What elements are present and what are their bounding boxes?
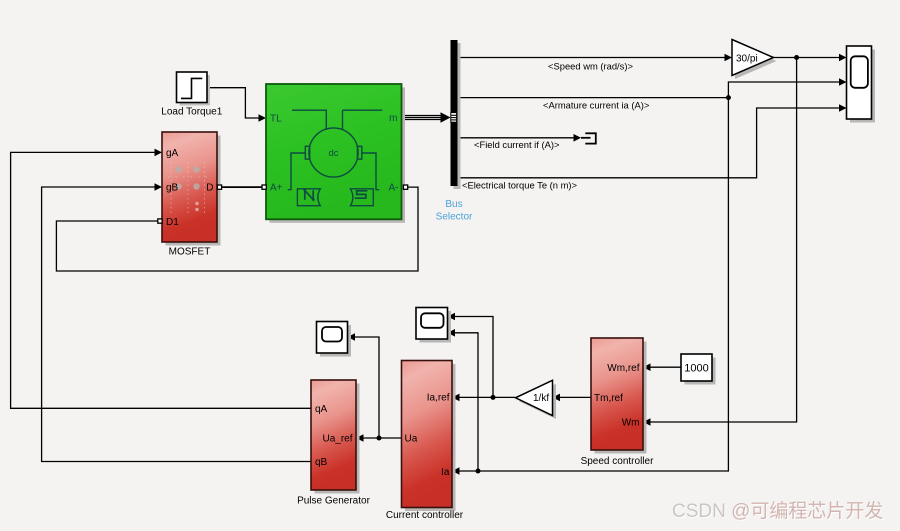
letter N xyxy=(304,190,315,199)
terminator xyxy=(581,132,596,144)
svg-text:gB: gB xyxy=(166,182,179,193)
svg-text:D: D xyxy=(206,182,213,193)
bus input port icon xyxy=(451,113,457,123)
wire electrical torque net xyxy=(458,108,840,178)
gain 30/pi xyxy=(732,40,777,80)
left brush xyxy=(305,146,309,159)
arrowhead into 1/kf xyxy=(553,394,561,402)
block Current controller xyxy=(386,361,464,522)
arrowhead into MOSFET gB xyxy=(155,183,163,191)
wire Tm,ref: Speed controller to 1/kf xyxy=(560,396,592,398)
svg-text:qB: qB xyxy=(315,457,328,468)
svg-text:1/kf: 1/kf xyxy=(533,393,549,404)
svg-text:1000: 1000 xyxy=(684,362,708,374)
arrowhead into Pulse Generator Ua_ref xyxy=(356,434,364,442)
svg-text:Ua_ref: Ua_ref xyxy=(322,434,352,445)
svg-text:m: m xyxy=(389,113,397,124)
junction dot Ua xyxy=(377,436,382,441)
svg-text:<Speed wm (rad/s)>: <Speed wm (rad/s)> xyxy=(548,60,633,71)
svg-text:D1: D1 xyxy=(166,217,179,228)
wire Ua net: Current controller Ua to Pulse Generator Ua_ref and Scope1 xyxy=(355,337,402,438)
scope2 xyxy=(416,308,451,343)
svg-text:dc: dc xyxy=(328,148,338,159)
block DC machine xyxy=(266,84,405,223)
svg-text:MOSFET: MOSFET xyxy=(169,247,211,258)
block Load Torque1 xyxy=(161,72,222,117)
wire gB net: Pulse Generator qB to MOSFET gB xyxy=(42,187,311,462)
wire D1 net: DC machine A- to MOSFET D1 xyxy=(56,187,418,271)
svg-text:<Armature current ia (A)>: <Armature current ia (A)> xyxy=(543,99,650,110)
svg-text:TL: TL xyxy=(270,114,282,125)
gain 1/kf xyxy=(516,380,557,419)
N magnet xyxy=(297,189,320,206)
arrowhead into Current controller Ia xyxy=(452,467,460,475)
svg-text:30/pi: 30/pi xyxy=(736,53,758,64)
bus selector bar xyxy=(436,40,473,223)
svg-text:Wm,ref: Wm,ref xyxy=(607,363,639,374)
S magnet xyxy=(350,189,373,206)
port marker DC machine A+ xyxy=(262,185,266,189)
letter S xyxy=(355,191,368,198)
block MOSFET xyxy=(162,132,221,258)
svg-text:Bus: Bus xyxy=(445,199,462,210)
arrowhead into terminator xyxy=(574,134,582,142)
svg-text:Pulse Generator: Pulse Generator xyxy=(297,496,370,507)
block Pulse Generator xyxy=(297,380,370,507)
arrowhead into DC machine TL xyxy=(259,114,267,122)
wire speed wm net: bus to 30/pi to scope and down to Wm xyxy=(458,58,840,423)
arrowhead into Speed controller Wm,ref xyxy=(643,363,651,371)
junction dot Ia xyxy=(476,469,481,474)
arrowhead into Speed controller Wm xyxy=(643,418,651,426)
port marker MOSFET D1 xyxy=(158,219,162,223)
junction dot armature xyxy=(726,95,731,100)
svg-text:Ia: Ia xyxy=(441,467,450,478)
arrowhead into Scope2 input 2 xyxy=(448,329,456,337)
scope (top right) xyxy=(847,46,876,123)
right brush xyxy=(357,146,361,159)
svg-text:A-: A- xyxy=(389,183,399,194)
wire Ia,ref net: 1/kf to Current controller and Scope2 xyxy=(455,317,516,398)
svg-text:Wm: Wm xyxy=(622,418,640,429)
field winding top xyxy=(292,110,326,130)
wire Load Torque1 to TL xyxy=(207,88,259,118)
wire m bus (triple line) xyxy=(402,116,443,120)
svg-text:Load Torque1: Load Torque1 xyxy=(161,106,222,117)
wire D to A+ xyxy=(222,186,263,188)
junction dot Ia,ref xyxy=(491,395,496,400)
svg-text:Speed controller: Speed controller xyxy=(581,456,654,467)
wire Wm,ref: constant 1000 to Speed controller xyxy=(650,366,681,368)
wire gA net: Pulse Generator qA to MOSFET gA xyxy=(11,152,311,408)
port marker DC machine A- xyxy=(403,185,407,189)
wire armature current net xyxy=(455,82,840,471)
arrowhead into MOSFET gA xyxy=(155,149,163,157)
arrowhead into Current controller Ia,ref xyxy=(452,394,460,402)
arrowhead into scope input 1 xyxy=(839,54,847,62)
arrowhead into scope input 3 xyxy=(839,104,847,112)
svg-text:Ia,ref: Ia,ref xyxy=(427,392,450,403)
arrowhead into 30/pi xyxy=(725,54,733,62)
svg-text:Tm,ref: Tm,ref xyxy=(594,393,623,404)
wire field current net xyxy=(458,137,575,139)
right lead xyxy=(362,153,379,190)
svg-text:Selector: Selector xyxy=(436,212,473,223)
svg-text:Ua: Ua xyxy=(405,433,418,444)
svg-text:A+: A+ xyxy=(270,183,283,194)
arrowhead into Scope1 xyxy=(348,333,356,341)
left lead xyxy=(288,153,306,190)
svg-text:CSDN @可编程芯片开发: CSDN @可编程芯片开发 xyxy=(672,500,883,522)
svg-text:qA: qA xyxy=(315,404,328,415)
junction dot speed xyxy=(794,55,799,60)
svg-text:Current controller: Current controller xyxy=(386,510,464,521)
arrowhead bus input xyxy=(441,112,451,122)
port marker MOSFET D xyxy=(217,185,221,189)
rotor circle xyxy=(309,128,358,177)
scope1 (bottom left) xyxy=(317,322,352,357)
svg-text:<Electrical torque Te (n m)>: <Electrical torque Te (n m)> xyxy=(462,179,578,190)
arrowhead into Scope2 input 1 xyxy=(448,313,456,321)
constant 1000 xyxy=(681,354,716,385)
svg-text:<Field current if (A)>: <Field current if (A)> xyxy=(474,139,560,150)
block Speed controller xyxy=(581,338,654,467)
arrowhead into scope input 2 xyxy=(839,78,847,86)
svg-text:gA: gA xyxy=(166,148,179,159)
